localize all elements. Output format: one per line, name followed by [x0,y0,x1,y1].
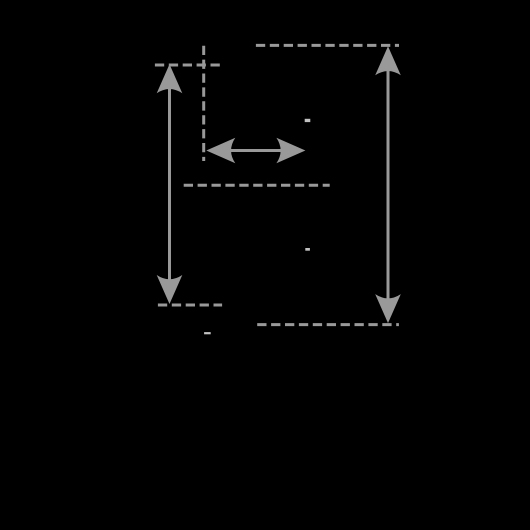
right arrow top head [375,46,401,75]
vertical dashed guide line [202,46,205,161]
horizontal arrow right head [276,138,305,164]
left arrow bottom head [157,275,183,304]
middle dashed guide line [184,184,330,187]
left vertical dimension arrow shaft [168,86,171,282]
horizontal dimension arrow shaft [228,149,284,152]
tiny label blob A [305,119,311,122]
horizontal arrow left head [206,138,235,164]
bottom-left dashed guide line [158,304,222,307]
tiny label blob C [204,332,211,334]
tiny label blob B [305,248,310,251]
right arrow bottom head [375,294,401,323]
top-left dashed guide line [155,64,223,67]
right vertical dimension arrow shaft [387,68,390,301]
left arrow top head [157,64,183,93]
top-right dashed guide line [256,44,399,47]
bottom-right dashed guide line [257,323,399,326]
